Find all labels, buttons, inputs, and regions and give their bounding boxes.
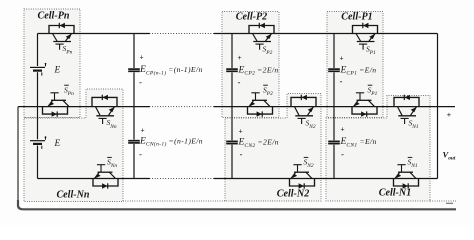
svg-text:Cell-N1: Cell-N1: [379, 188, 412, 199]
svg-text:Cell-P2: Cell-P2: [236, 12, 267, 23]
svg-text:+: +: [447, 110, 452, 119]
svg-text:+: +: [340, 127, 344, 134]
svg-text:E: E: [54, 138, 61, 148]
svg-text:-: -: [240, 150, 243, 160]
svg-text:-: -: [139, 78, 142, 88]
svg-text:-: -: [139, 150, 142, 160]
svg-text:+: +: [139, 55, 143, 62]
svg-text:E: E: [54, 65, 61, 75]
svg-text:+: +: [237, 55, 241, 62]
svg-text:Cell-N2: Cell-N2: [277, 189, 310, 200]
svg-text:Cell-P1: Cell-P1: [341, 12, 372, 23]
svg-text:+: +: [140, 128, 144, 135]
svg-text:Cell-Pn: Cell-Pn: [38, 11, 70, 22]
svg-text:Cell-Nn: Cell-Nn: [56, 190, 89, 201]
svg-text:+: +: [238, 129, 242, 136]
svg-text:-: -: [341, 150, 344, 160]
svg-text:-: -: [238, 78, 241, 88]
svg-text:-: -: [340, 77, 343, 87]
svg-text:+: +: [339, 56, 343, 63]
